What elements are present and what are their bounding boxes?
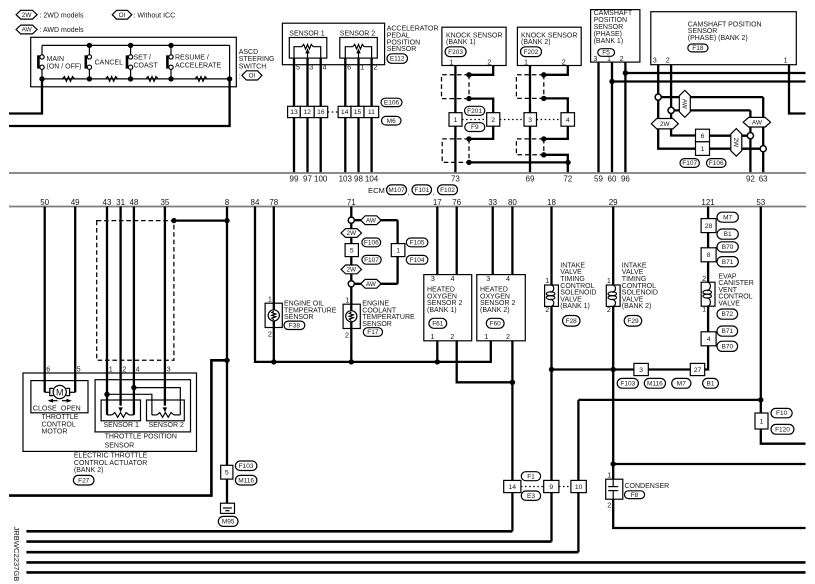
node knock2 shield top NE [541, 72, 546, 77]
connector B71 at box4 [717, 326, 738, 336]
wire ECM 8 ground chain [226, 207, 228, 466]
svg-text:2: 2 [620, 54, 624, 63]
motor close arrow [51, 400, 58, 402]
svg-text:B72: B72 [722, 311, 734, 318]
camshaft position sensor (phase) (bank 1) box [591, 10, 640, 63]
svg-text:POSITION: POSITION [594, 17, 627, 24]
node knock1 shield top SE [466, 96, 471, 101]
connector F27 [73, 475, 94, 485]
wire ECM 80 to HO2S2 pin4 [511, 207, 513, 275]
svg-text:F106: F106 [709, 160, 724, 167]
wire ECM 121 to box28 [707, 207, 709, 219]
svg-text:3: 3 [309, 63, 313, 72]
svg-text:59: 59 [594, 175, 603, 184]
switch CANCEL contact [88, 45, 90, 54]
connector M107 [387, 185, 407, 195]
svg-text:F29: F29 [627, 318, 639, 325]
connector F5 [598, 49, 615, 57]
wire condenser ground to right edge [613, 499, 805, 528]
svg-text::: : [239, 73, 241, 80]
connector M95 [218, 516, 238, 526]
svg-text:2: 2 [506, 332, 510, 341]
connector box 27 on rail [690, 363, 704, 375]
svg-text:M7: M7 [723, 214, 732, 221]
heated oxygen sensor 2 (bank 1) box [424, 275, 472, 341]
connector F1 [521, 472, 540, 481]
svg-text:THROTTLE POSITION: THROTTLE POSITION [105, 434, 177, 441]
dotted link 14-9 [521, 486, 544, 488]
node shield drain [171, 218, 176, 223]
svg-text:CONTROL: CONTROL [42, 421, 76, 428]
connector M6 [382, 116, 402, 125]
svg-text:: AWD models: : AWD models [40, 27, 85, 34]
wire ASCD internal bottom bus [42, 78, 230, 80]
node ASCD bottom bus junction at switch RESUME/ACCELERATE [168, 76, 173, 81]
svg-text:63: 63 [759, 175, 768, 184]
svg-text:F9: F9 [471, 124, 479, 131]
svg-text:SENSOR: SENSOR [105, 443, 135, 450]
connector F102 [438, 185, 458, 195]
wire shield drain to ECM 8 wire [174, 219, 227, 221]
svg-text:RESUME /: RESUME / [175, 55, 209, 62]
wire ASCD right internal vertical [229, 45, 231, 79]
wire solenoid ground rail b [648, 368, 690, 370]
connector F18 [688, 44, 708, 52]
knock sensor (bank 1) box [442, 27, 506, 65]
wire ECM 50 to throttle motor pin6 [44, 207, 46, 393]
resistor ASCD R4 [195, 77, 207, 82]
svg-text:F103: F103 [239, 463, 254, 470]
connector box 3 (knock2 signal) [524, 113, 537, 127]
svg-text:CONDENSER: CONDENSER [625, 483, 670, 490]
svg-text:2W: 2W [660, 121, 671, 128]
wire box8 to EVAP valve [707, 262, 709, 282]
throttle position sensor outer box [95, 380, 190, 432]
wire APP pin6 to ECM 103 [344, 58, 346, 173]
switch SET/COAST contact [130, 45, 132, 54]
node ASCD bottom bus junction at switch MAIN [39, 76, 44, 81]
wire APP pin4 to ECM 100 [320, 58, 322, 173]
svg-text:1: 1 [109, 365, 113, 374]
svg-text:(BANK 2): (BANK 2) [480, 307, 510, 314]
wire box10 vertical [577, 400, 579, 552]
svg-text:9: 9 [549, 484, 553, 491]
connector F9 [465, 123, 485, 132]
svg-text:98: 98 [354, 175, 363, 184]
connector box 4 (knock2 return) [561, 113, 575, 127]
dotted link box2-box3 [500, 119, 524, 121]
svg-text:8: 8 [707, 252, 711, 259]
svg-text:(BANK 2): (BANK 2) [74, 467, 104, 474]
svg-text:97: 97 [303, 175, 312, 184]
svg-text:AW: AW [366, 217, 377, 224]
wire F18 pin1 to right edge [789, 65, 806, 114]
svg-text:OI: OI [119, 12, 126, 19]
node solenoid1 rail junction [549, 367, 554, 372]
potentiometer sensor 2 [345, 47, 353, 58]
node knock1 shield top NE [466, 72, 471, 77]
svg-text:84: 84 [251, 198, 260, 207]
wire box1 to right edge [761, 429, 806, 444]
svg-text:3: 3 [486, 274, 490, 283]
svg-text:JRBWC2237GB: JRBWC2237GB [12, 527, 21, 582]
svg-text:2: 2 [545, 305, 549, 314]
wire solenoid2 down to condenser [612, 306, 614, 479]
wire ground bus 2 [26, 540, 551, 543]
svg-text:60: 60 [608, 175, 617, 184]
svg-text:6: 6 [46, 365, 50, 374]
node ASCD top bus junction at switch SET/COAST [128, 43, 133, 48]
svg-text:5: 5 [225, 470, 229, 477]
heated oxygen sensor 2 (bank 2) box [477, 275, 526, 341]
connector F60 [486, 318, 504, 328]
connector F106 [707, 159, 727, 168]
svg-text:F201: F201 [467, 108, 482, 115]
wire EVAP valve to box4 [707, 306, 709, 332]
svg-text:SENSOR: SENSOR [594, 24, 624, 31]
solenoid coil F28 [545, 285, 559, 306]
potentiometer TPS sensor 2 [152, 414, 157, 416]
connector F17 [363, 328, 382, 337]
thermistor oil temp [268, 310, 279, 321]
connector B1 on rail [703, 378, 719, 388]
svg-text:3: 3 [167, 365, 171, 374]
svg-text:(BANK 2): (BANK 2) [622, 303, 652, 310]
svg-text:2: 2 [450, 332, 454, 341]
ECM bottom bus line [9, 206, 806, 208]
svg-text:M116: M116 [647, 380, 663, 387]
svg-text:F203: F203 [448, 49, 463, 56]
svg-text:2W: 2W [22, 12, 33, 19]
node F5 pin2 branch [623, 70, 628, 75]
wire box5 to ground [226, 479, 228, 503]
svg-text:1: 1 [607, 470, 611, 479]
connector box 10 [571, 480, 586, 492]
connector F103 at box5 [235, 461, 257, 471]
symbol 2W on 2WD continuations [651, 119, 678, 129]
symbol AW on AWD branches [679, 90, 690, 117]
svg-text:SENSOR: SENSOR [284, 314, 314, 321]
svg-text:29: 29 [609, 198, 618, 207]
svg-text:2: 2 [702, 274, 706, 283]
connector F101 [412, 185, 432, 195]
svg-text:18: 18 [547, 198, 556, 207]
svg-text:CLOSE: CLOSE [33, 406, 57, 413]
connector F202 [521, 47, 542, 57]
node condenser supply junction [611, 461, 616, 466]
svg-text:THROTTLE: THROTTLE [42, 414, 79, 421]
connector box 4 (EVAP) [701, 332, 716, 346]
svg-text:6: 6 [701, 133, 705, 140]
svg-text:73: 73 [451, 175, 460, 184]
svg-text:2: 2 [666, 56, 670, 65]
wire F18 pin2 down [670, 65, 672, 108]
electric throttle control actuator box F27 [23, 373, 197, 451]
svg-text:1: 1 [545, 276, 549, 285]
svg-text:M95: M95 [222, 519, 235, 526]
connector box pin 14 [338, 106, 351, 117]
svg-text:15: 15 [354, 109, 362, 116]
svg-text:16: 16 [317, 109, 325, 116]
connector E3 [521, 491, 540, 500]
wiper arrow sensor 2 [358, 53, 360, 58]
svg-text:5: 5 [296, 63, 300, 72]
svg-text:17: 17 [433, 198, 442, 207]
svg-text:F28: F28 [566, 318, 578, 325]
wire ECM 53 down [760, 207, 762, 414]
connector box 8 [701, 248, 716, 262]
svg-text:6: 6 [347, 63, 351, 72]
ECM top bus line [9, 172, 806, 174]
connector F38 [284, 321, 305, 329]
svg-text:SET /: SET / [134, 55, 151, 62]
svg-text:OI: OI [249, 73, 256, 80]
connector F201 [465, 106, 485, 115]
svg-text:1: 1 [454, 117, 458, 124]
svg-text:OPEN: OPEN [61, 406, 81, 413]
svg-text:B71: B71 [722, 259, 734, 266]
svg-text:F61: F61 [432, 320, 444, 327]
connector M116 on rail [644, 378, 665, 388]
svg-text:2W: 2W [347, 267, 358, 274]
connector M7 at box28 [717, 212, 738, 222]
connector box 14 [504, 480, 521, 492]
svg-text:(PHASE): (PHASE) [594, 31, 622, 38]
wire box1 to ECM 63 wire [710, 148, 761, 150]
node knock2 shield bottom SE [541, 152, 546, 157]
wire F18 pin3 down [657, 65, 659, 94]
motor brush left [50, 388, 53, 395]
svg-text:99: 99 [290, 175, 299, 184]
wire solenoid ground rail [552, 368, 634, 370]
connector box 2 (knock1 return) [487, 113, 500, 127]
wire solenoid1 down to bus 2 [550, 306, 552, 541]
node ECM53 junction [758, 397, 763, 402]
svg-text:F18: F18 [692, 45, 704, 52]
node knock1 shield bottom NE [466, 136, 471, 141]
svg-text:M: M [56, 387, 64, 397]
dotted link box1-box2 [462, 119, 487, 121]
svg-text:50: 50 [40, 198, 49, 207]
svg-text:33: 33 [488, 198, 497, 207]
svg-text:M7: M7 [677, 380, 686, 387]
svg-text:71: 71 [347, 198, 356, 207]
svg-text:14: 14 [509, 484, 517, 491]
svg-text:STEERING: STEERING [239, 56, 275, 63]
svg-text:28: 28 [705, 223, 713, 230]
svg-text:F103: F103 [620, 380, 635, 387]
node ASCD bottom bus junction at switch SET/COAST [128, 76, 133, 81]
svg-text:2: 2 [491, 117, 495, 124]
splice coolant wire lower [348, 281, 354, 287]
svg-text:1: 1 [431, 332, 435, 341]
svg-text:43: 43 [103, 198, 112, 207]
connector F105 [406, 238, 428, 247]
svg-text:F105: F105 [410, 240, 425, 247]
svg-text:2W: 2W [732, 138, 739, 149]
node knock sensors shared return junction [565, 160, 570, 165]
engine coolant temperature sensor box [343, 304, 360, 328]
wiper arrow sensor 1 [307, 53, 309, 58]
wire knock2 pin2 upper jog [544, 66, 568, 75]
connector B70 at box8 [717, 242, 738, 252]
wire ECM 43 to TPS pin1 [106, 207, 108, 415]
svg-text:F202: F202 [524, 49, 539, 56]
svg-text:31: 31 [116, 198, 125, 207]
svg-text:4: 4 [707, 336, 711, 343]
connector F106 at coolant box5 [362, 238, 381, 247]
shield dashed box around TPS wires [97, 221, 174, 361]
wire ground bus 5 [26, 571, 805, 574]
wire HO2S2 pin2 down to bus [511, 341, 513, 532]
thermistor coolant temp [346, 311, 357, 322]
svg-text:SWITCH: SWITCH [239, 63, 267, 70]
wire knock2 return to ECM 72 [544, 155, 568, 173]
ASCD steering switch outer box [31, 37, 237, 87]
svg-text:48: 48 [129, 198, 138, 207]
node TPS supply branch [104, 392, 109, 397]
legend symbol OI (Without ICC) [112, 10, 132, 19]
svg-text:1: 1 [268, 295, 272, 304]
svg-text:F8: F8 [631, 492, 639, 499]
svg-text:SENSOR 1: SENSOR 1 [104, 422, 140, 429]
wire HO2S1 pin1 to rail [436, 341, 438, 362]
svg-text:M116: M116 [238, 477, 254, 484]
svg-text:M6: M6 [387, 118, 396, 125]
svg-text:F104: F104 [410, 257, 425, 264]
svg-text:104: 104 [365, 175, 379, 184]
svg-text:ELECTRIC THROTTLE: ELECTRIC THROTTLE [74, 453, 148, 460]
connector E106 [381, 98, 402, 106]
connector F107 [680, 159, 699, 168]
TPS sensor 2 box [147, 400, 185, 421]
node TPS ground branch [131, 385, 136, 390]
wire ECM 31 to TPS pin2 [119, 207, 121, 406]
connector box 1 (camshaft 2WD) [696, 142, 710, 156]
dotted link box3-box4 [537, 119, 562, 121]
svg-text:B1: B1 [724, 231, 732, 238]
svg-text:2: 2 [373, 63, 377, 72]
solenoid coil F29 [606, 285, 620, 306]
connector F29 [624, 316, 642, 327]
svg-text:5: 5 [350, 247, 354, 254]
node ASCD top bus junction at switch RESUME/ACCELERATE [168, 43, 173, 48]
wire F18 pin2 AWD branch [674, 109, 750, 111]
wire AWD branch down to ECM 92 [749, 110, 751, 173]
throttle control motor box [31, 381, 88, 413]
svg-text:1: 1 [345, 296, 349, 305]
splice F18 pin3 (model split) [655, 94, 661, 100]
svg-text:F102: F102 [440, 187, 455, 194]
connector F8 [625, 491, 645, 499]
wire F18 pin3 AWD branch [661, 96, 763, 98]
camshaft position sensor (phase) (bank 2) box [651, 12, 797, 65]
connector box 1 (knock1 signal) [449, 113, 462, 127]
wire knock2 pin1 to ECM 69 [529, 66, 531, 174]
svg-text:1: 1 [524, 57, 528, 66]
svg-text:(ON / OFF): (ON / OFF) [47, 63, 82, 70]
svg-text:B71: B71 [722, 328, 734, 335]
connector B72 [717, 309, 738, 319]
wire motor pin6 lead [45, 391, 50, 393]
svg-text:,: , [433, 190, 435, 197]
wire camshaft supply bus (upper, to right edge) [625, 72, 805, 74]
svg-text:E106: E106 [384, 100, 400, 107]
switch MAIN contact [41, 45, 43, 54]
svg-text:AW: AW [681, 99, 688, 110]
svg-text:103: 103 [339, 175, 353, 184]
svg-text:M107: M107 [388, 187, 405, 194]
svg-text:1: 1 [396, 247, 400, 254]
accelerator pedal position sensor box E112 [282, 23, 384, 64]
wire AWD branch down to ECM 63 [762, 97, 764, 173]
wire F18 pin3 2WD continuation [658, 100, 695, 149]
svg-text:13: 13 [290, 109, 298, 116]
svg-text:COAST: COAST [134, 63, 159, 70]
connector E112 [387, 54, 408, 64]
sensor 1 inner box [289, 38, 327, 59]
svg-text:3: 3 [528, 117, 532, 124]
svg-text:B70: B70 [722, 343, 734, 350]
connector F107 at coolant box5 [362, 255, 381, 264]
svg-text:3: 3 [593, 54, 597, 63]
wire coolant to sensor [350, 287, 352, 362]
wire knock2 pin2 to connector 4 [544, 98, 568, 112]
svg-text:96: 96 [621, 175, 630, 184]
wire rail to EVAP chain [705, 346, 708, 370]
wire knock1 pin2 lower jog [469, 126, 493, 139]
svg-text:SENSOR 1: SENSOR 1 [289, 31, 325, 38]
sensor 2 inner box [340, 38, 378, 59]
wire ground bus 3 [26, 551, 578, 554]
svg-text:B70: B70 [722, 244, 734, 251]
node knock2 shield top SE [541, 96, 546, 101]
wire box28 to box8 [707, 233, 709, 248]
svg-text:F27: F27 [78, 477, 90, 484]
svg-text:2: 2 [607, 305, 611, 314]
svg-text:12: 12 [303, 109, 311, 116]
connector box 1 (F10/F120) [755, 413, 768, 429]
wire ECM 18 to solenoid1 [550, 207, 552, 286]
svg-text:76: 76 [452, 198, 461, 207]
svg-text:1: 1 [607, 276, 611, 285]
motor open arrow [62, 400, 69, 402]
symbol AW on AWD verticals [743, 117, 770, 127]
wire APP pin5 to ECM 99 [293, 58, 295, 173]
svg-text:4: 4 [566, 117, 570, 124]
ground symbol M95 [221, 503, 235, 513]
node solenoid2 rail junction [611, 367, 616, 372]
symbol AW upper on AWD branch [361, 216, 381, 225]
svg-text:8: 8 [225, 198, 230, 207]
switch RESUME/ACCELERATE contact [170, 45, 172, 54]
svg-text:100: 100 [314, 175, 328, 184]
svg-text:49: 49 [71, 198, 80, 207]
svg-text:F1: F1 [527, 473, 535, 480]
splice merge ECM92 wire [747, 133, 753, 139]
wire ECM 49 to throttle motor pin5 [74, 207, 76, 393]
node HO2S1 ground junction [435, 359, 440, 364]
splice merge ECM63 wire [760, 146, 766, 152]
wiper arrow TPS sensor 1 [118, 407, 122, 412]
wire knock1 return to ECM 72 junction [469, 161, 568, 163]
wire ECM 33 to HO2S2 pin3 [492, 207, 494, 275]
svg-text:80: 80 [508, 198, 517, 207]
svg-text:CONTROL ACTUATOR: CONTROL ACTUATOR [74, 460, 147, 467]
connector F203 [445, 47, 466, 57]
svg-text:SENSOR: SENSOR [362, 321, 392, 328]
svg-text:VALVE: VALVE [718, 301, 740, 308]
